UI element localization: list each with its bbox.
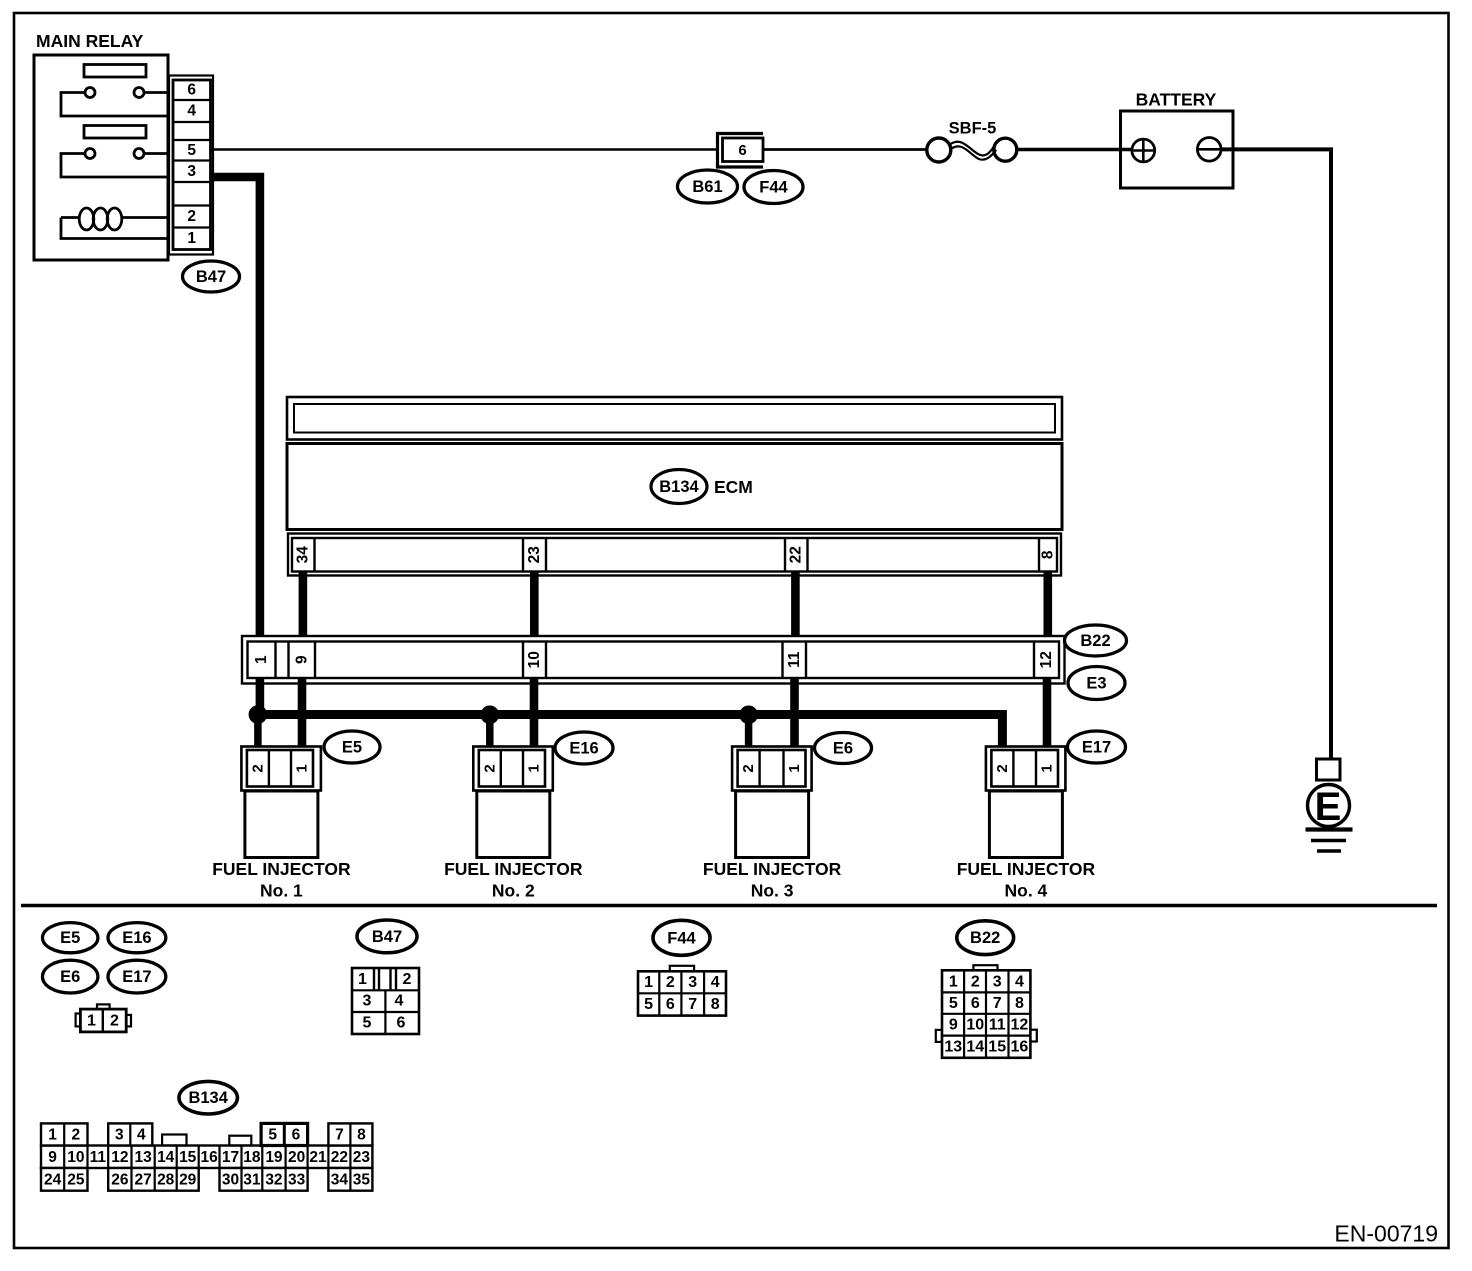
- wire node 3 to injector 3 pin 2: [745, 715, 753, 750]
- ground E: [1306, 759, 1353, 851]
- svg-text:E16: E16: [122, 929, 151, 947]
- battery: [1121, 90, 1234, 189]
- legend label B22: [957, 921, 1014, 955]
- svg-text:4: 4: [711, 974, 720, 991]
- ECM connector strip pins 34 23 22 8: [288, 534, 1061, 576]
- svg-text:28: 28: [157, 1171, 175, 1188]
- svg-text:15: 15: [179, 1149, 197, 1166]
- svg-text:7: 7: [335, 1126, 344, 1143]
- svg-text:1: 1: [187, 230, 196, 247]
- svg-text:No. 3: No. 3: [751, 881, 794, 901]
- svg-text:E16: E16: [569, 740, 598, 758]
- connector label E3: [1068, 667, 1125, 700]
- svg-text:25: 25: [67, 1171, 85, 1188]
- svg-text:30: 30: [222, 1171, 239, 1188]
- svg-text:13: 13: [944, 1039, 962, 1056]
- svg-text:SBF-5: SBF-5: [949, 120, 997, 138]
- legend label B47: [357, 920, 417, 953]
- svg-text:E6: E6: [833, 740, 853, 758]
- svg-text:5: 5: [187, 142, 196, 159]
- svg-text:1: 1: [48, 1126, 57, 1143]
- wire B22 pin 1 to bus node 1: [256, 678, 265, 715]
- svg-text:E6: E6: [60, 968, 80, 986]
- svg-text:8: 8: [1015, 995, 1024, 1012]
- svg-text:12: 12: [1038, 651, 1055, 668]
- legend label F44: [653, 920, 710, 955]
- connector label E17: [1068, 731, 1126, 763]
- svg-text:1: 1: [644, 974, 653, 991]
- svg-text:5: 5: [949, 995, 958, 1012]
- svg-text:14: 14: [966, 1039, 984, 1056]
- ECM B134: [287, 397, 1062, 530]
- svg-text:2: 2: [403, 971, 412, 988]
- svg-text:8: 8: [357, 1126, 366, 1143]
- legend connector face B22: [936, 965, 1037, 1058]
- svg-text:1: 1: [294, 764, 311, 772]
- svg-text:3: 3: [115, 1126, 124, 1143]
- junction node 3: [740, 706, 758, 724]
- svg-text:9: 9: [293, 655, 310, 664]
- svg-text:1: 1: [949, 973, 958, 990]
- connector label E16: [555, 732, 613, 764]
- junction node 1: [249, 706, 267, 724]
- svg-text:2: 2: [72, 1126, 81, 1143]
- wire fuse to SBF-5: [764, 148, 928, 151]
- connector label B22: [1065, 625, 1127, 656]
- wire ECM pin 22 to B22 pin 11: [791, 571, 800, 640]
- svg-text:20: 20: [288, 1149, 305, 1166]
- svg-text:B134: B134: [188, 1089, 228, 1107]
- svg-text:34: 34: [295, 546, 312, 564]
- svg-text:3: 3: [688, 974, 697, 991]
- svg-text:13: 13: [134, 1149, 152, 1166]
- svg-text:14: 14: [157, 1149, 175, 1166]
- svg-text:10: 10: [966, 1016, 984, 1033]
- legend connector face B47: [352, 968, 419, 1034]
- connector label E6: [815, 733, 872, 764]
- svg-text:18: 18: [243, 1149, 261, 1166]
- power bus wire to injector pin 2 rail: [258, 715, 1003, 751]
- connector strip B22/E3: [242, 636, 1065, 684]
- svg-text:6: 6: [292, 1126, 301, 1143]
- svg-text:8: 8: [711, 996, 720, 1013]
- svg-text:B22: B22: [1080, 632, 1110, 650]
- svg-text:F44: F44: [667, 929, 696, 947]
- svg-text:3: 3: [363, 993, 372, 1010]
- svg-text:17: 17: [222, 1149, 239, 1166]
- svg-text:5: 5: [363, 1015, 372, 1032]
- svg-text:22: 22: [331, 1149, 348, 1166]
- svg-text:34: 34: [331, 1171, 349, 1188]
- svg-text:10: 10: [67, 1149, 84, 1166]
- svg-text:11: 11: [90, 1149, 107, 1166]
- svg-text:21: 21: [309, 1149, 327, 1166]
- legend label E16: [108, 923, 166, 953]
- svg-text:15: 15: [988, 1039, 1006, 1056]
- svg-text:EN-00719: EN-00719: [1334, 1221, 1438, 1247]
- svg-text:2: 2: [187, 208, 196, 225]
- svg-text:12: 12: [111, 1149, 128, 1166]
- svg-text:3: 3: [993, 973, 1002, 990]
- legend label E17: [108, 960, 166, 993]
- svg-text:29: 29: [179, 1171, 197, 1188]
- wire ECM pin 34 to B22 pin 9: [299, 571, 308, 640]
- svg-text:F44: F44: [759, 179, 788, 197]
- svg-text:E17: E17: [1082, 739, 1111, 757]
- fuel injector No.3: [703, 747, 842, 901]
- svg-text:FUEL INJECTOR: FUEL INJECTOR: [957, 859, 1096, 879]
- svg-text:2: 2: [110, 1012, 119, 1029]
- connector label B61: [678, 170, 738, 203]
- svg-text:33: 33: [288, 1171, 306, 1188]
- wire battery to ground: [1220, 149, 1331, 759]
- svg-text:B47: B47: [196, 268, 226, 286]
- fusible link SBF-5: [927, 120, 1017, 163]
- svg-text:23: 23: [353, 1149, 371, 1166]
- svg-text:26: 26: [111, 1171, 129, 1188]
- fuel injector No.1: [212, 747, 351, 901]
- legend label B134: [179, 1081, 237, 1114]
- svg-text:No. 1: No. 1: [260, 881, 303, 901]
- svg-text:2: 2: [971, 973, 980, 990]
- fuse 6 (B61/F44): [718, 134, 764, 168]
- svg-text:24: 24: [44, 1171, 62, 1188]
- connector label E5: [324, 731, 380, 763]
- legend label E6: [42, 960, 97, 993]
- svg-text:B22: B22: [970, 929, 1000, 947]
- svg-text:BATTERY: BATTERY: [1136, 90, 1217, 110]
- svg-text:E3: E3: [1086, 675, 1106, 693]
- svg-text:E5: E5: [60, 929, 80, 947]
- svg-text:E: E: [1315, 785, 1342, 829]
- svg-text:MAIN RELAY: MAIN RELAY: [36, 31, 144, 51]
- svg-text:4: 4: [1015, 973, 1024, 990]
- wire node 2 to injector 2 pin 2: [486, 715, 494, 750]
- svg-text:23: 23: [526, 546, 543, 564]
- svg-text:16: 16: [200, 1149, 218, 1166]
- svg-text:8: 8: [1040, 550, 1057, 559]
- connector label F44: [744, 171, 803, 204]
- svg-text:No. 4: No. 4: [1005, 881, 1048, 901]
- svg-text:ECM: ECM: [714, 477, 753, 497]
- svg-text:E5: E5: [342, 739, 362, 757]
- legend connector face B134: [41, 1123, 372, 1190]
- svg-text:2: 2: [740, 764, 757, 772]
- legend connector face E5/E16/E6/E17: [76, 1004, 131, 1032]
- svg-text:1: 1: [1039, 764, 1056, 772]
- wire main relay pin5 to fuse: [211, 148, 718, 151]
- svg-text:5: 5: [644, 996, 653, 1013]
- connector label B47: [183, 261, 240, 292]
- svg-text:2: 2: [481, 764, 498, 772]
- svg-text:FUEL INJECTOR: FUEL INJECTOR: [444, 859, 583, 879]
- legend label E5: [42, 923, 97, 953]
- svg-text:12: 12: [1011, 1016, 1029, 1033]
- svg-text:B61: B61: [692, 178, 722, 196]
- connector B47 pin strip: [169, 76, 213, 255]
- wire B22 pin 9 to injector 1 pin 1: [298, 678, 307, 750]
- wire node 1 to injector 1 pin 2: [254, 715, 262, 751]
- wire B22 pin 11 to injector 3 pin 1: [790, 678, 799, 750]
- svg-text:1: 1: [526, 764, 543, 772]
- svg-text:1: 1: [786, 764, 803, 772]
- svg-text:6: 6: [738, 142, 746, 159]
- svg-text:19: 19: [265, 1149, 283, 1166]
- wire ECM pin 23 to B22 pin 10: [530, 571, 539, 640]
- fuel injector No.2: [444, 747, 583, 901]
- svg-text:B134: B134: [659, 478, 699, 496]
- svg-text:6: 6: [971, 995, 980, 1012]
- svg-text:1: 1: [253, 655, 270, 664]
- svg-text:9: 9: [949, 1016, 958, 1033]
- svg-text:2: 2: [666, 974, 675, 991]
- svg-text:4: 4: [137, 1126, 146, 1143]
- wire B22 pin 10 to injector 2 pin 1: [530, 678, 539, 750]
- svg-text:6: 6: [187, 82, 196, 99]
- fuel injector No.4: [957, 747, 1096, 901]
- svg-text:10: 10: [526, 651, 543, 668]
- svg-text:No. 2: No. 2: [492, 881, 535, 901]
- svg-text:E17: E17: [122, 968, 151, 986]
- svg-text:5: 5: [268, 1126, 277, 1143]
- wire ECM pin 8 to B22 pin 12: [1044, 571, 1053, 640]
- svg-text:31: 31: [243, 1171, 261, 1188]
- junction node 2: [481, 706, 499, 724]
- wire B22 pin 12 to injector 4 pin 1: [1043, 678, 1052, 750]
- svg-text:7: 7: [993, 995, 1002, 1012]
- svg-text:6: 6: [397, 1015, 406, 1032]
- wire main relay pin 3 to connector B22 pin 1: [211, 177, 260, 638]
- main relay: [34, 55, 168, 260]
- svg-text:11: 11: [989, 1016, 1006, 1033]
- svg-text:2: 2: [249, 764, 266, 772]
- svg-text:1: 1: [87, 1012, 96, 1029]
- svg-text:1: 1: [358, 971, 367, 988]
- svg-text:27: 27: [134, 1171, 151, 1188]
- svg-text:6: 6: [666, 996, 675, 1013]
- svg-text:22: 22: [788, 546, 805, 563]
- svg-text:35: 35: [353, 1171, 371, 1188]
- svg-text:9: 9: [48, 1149, 57, 1166]
- svg-text:2: 2: [994, 764, 1011, 772]
- svg-text:4: 4: [395, 993, 404, 1010]
- svg-text:32: 32: [265, 1171, 282, 1188]
- legend connector face F44: [638, 966, 726, 1016]
- svg-text:FUEL INJECTOR: FUEL INJECTOR: [703, 859, 842, 879]
- svg-text:3: 3: [187, 163, 196, 180]
- svg-text:16: 16: [1011, 1039, 1029, 1056]
- svg-text:11: 11: [786, 651, 803, 668]
- svg-text:FUEL INJECTOR: FUEL INJECTOR: [212, 859, 351, 879]
- svg-text:7: 7: [688, 996, 697, 1013]
- svg-text:B47: B47: [372, 928, 402, 946]
- svg-text:4: 4: [187, 103, 196, 120]
- wire SBF-5 to battery: [1017, 148, 1134, 152]
